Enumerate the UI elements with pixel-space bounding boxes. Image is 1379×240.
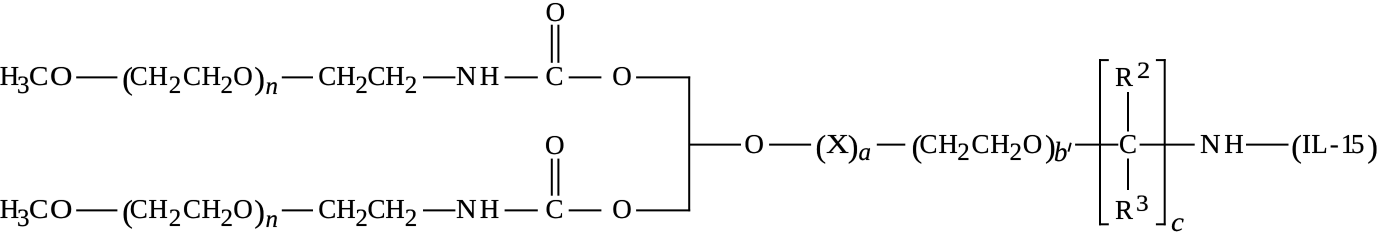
double bond C=O bottom — [551, 159, 553, 196]
carbonyl O bottom — [545, 130, 565, 161]
bond PEG-CH2 top — [282, 76, 313, 78]
group (X)a — [816, 128, 827, 165]
bond H3CO-PEG top — [76, 76, 117, 78]
group (CH2CH2O)n top — [122, 60, 133, 97]
group NH right — [1200, 129, 1221, 160]
bond CH2-NH top — [423, 76, 455, 78]
quaternary C — [1119, 129, 1137, 160]
bond C-O bottom — [569, 209, 602, 211]
carbonyl O top — [546, 0, 566, 28]
group NH bottom — [456, 194, 477, 225]
group NH top — [456, 61, 477, 92]
group (CH2CH2O)n bottom — [122, 193, 133, 230]
bond O-(X)a — [769, 144, 811, 146]
left bracket — [1099, 59, 1101, 225]
bond CH2-NH bottom — [423, 209, 455, 211]
ester O top — [612, 61, 632, 92]
group (CH2CH2O)b' — [912, 128, 923, 165]
repeat subscript c — [1171, 207, 1184, 238]
group CH2CH2 top — [318, 61, 336, 92]
right bracket — [1164, 59, 1166, 225]
carbamate C top — [546, 61, 564, 92]
central O node — [744, 129, 764, 160]
bond H3CO-PEG bottom — [76, 209, 117, 211]
bond O-backbone top — [636, 76, 690, 78]
bond backbone-O center — [689, 144, 741, 146]
prime after b subscript — [1068, 143, 1070, 152]
bond C-O top — [569, 76, 602, 78]
group CH2CH2 bottom — [318, 194, 336, 225]
group H3CO bottom — [0, 194, 19, 225]
bond C-R2 vertical — [1127, 92, 1129, 132]
backbone vertical — [688, 76, 690, 211]
bond O-backbone bottom — [636, 209, 690, 211]
substituent R3 — [1115, 195, 1133, 226]
bond C-NH (crosses right bracket) — [1140, 144, 1195, 146]
carbamate C bottom — [546, 194, 564, 225]
bond PEG-CH2 bottom — [282, 209, 313, 211]
group H3CO top — [0, 61, 19, 92]
bond NH-C top — [505, 76, 538, 78]
bond PEG-C (crosses left bracket) — [1075, 144, 1118, 146]
bond NH-C bottom — [505, 209, 538, 211]
group (IL-15) — [1291, 128, 1302, 165]
ester O bottom — [612, 194, 632, 225]
substituent R2 — [1115, 62, 1133, 93]
bond NH-(IL-15) — [1246, 144, 1289, 146]
bond (X)a-PEG — [877, 144, 906, 146]
bond C-R3 vertical — [1127, 159, 1129, 191]
double bond C=O top — [551, 25, 553, 63]
